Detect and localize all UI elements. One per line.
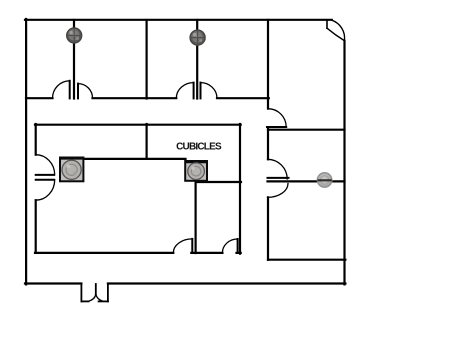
entrance recess left jamb: [80, 284, 82, 302]
cubicle bottom door 1 swing arc: [173, 239, 192, 253]
cubicle bottom door 2 swing arc: [222, 239, 237, 253]
cubicle partition wall right of sensor S2: [196, 181, 241, 183]
outer top wall: [25, 19, 332, 21]
wall C (top band divider with sensor): [196, 20, 198, 99]
sensor S_C (ceiling sensor, right wing wall): [317, 173, 332, 188]
outer bottom wall left segment: [25, 282, 81, 284]
door A-left swing arc: [53, 81, 70, 98]
outer right wall: [343, 41, 345, 285]
bottom-right room bottom wall: [268, 259, 345, 261]
left double door lower swing arc: [36, 180, 55, 201]
outer left wall: [25, 19, 27, 284]
sensor S2 (cubicle device box, right): [185, 161, 207, 181]
top band bottom wall segment 3: [217, 97, 269, 99]
outer bottom wall right segment: [108, 282, 346, 284]
wall D (top band right divider): [267, 20, 269, 109]
entrance door right swing: [96, 294, 103, 301]
sensor S1 (cubicle device box, left): [60, 158, 83, 182]
cubicle bottom door 2 leaf: [237, 239, 239, 253]
svg-text:CUBICLES: CUBICLES: [176, 141, 222, 152]
door C-left leaf: [193, 83, 195, 99]
wall B (top band divider): [146, 20, 148, 99]
cubicle area left wall lower segment: [35, 200, 37, 252]
cubicle partition wall vertical: [146, 124, 148, 159]
right double door lower swing arc: [268, 184, 289, 198]
cubicle bottom door 1 leaf: [191, 239, 193, 253]
top band bottom wall segment 1: [26, 97, 53, 99]
left double door upper swing arc: [36, 155, 55, 175]
door A-left leaf: [69, 81, 71, 99]
door D1 swing arc: [268, 109, 286, 127]
corner door jamb stub top-right: [326, 20, 328, 28]
wall divider top-right/mid-right rooms: [268, 129, 345, 131]
door C-right swing arc: [201, 83, 218, 99]
door A-right leaf: [77, 84, 79, 99]
wall D lower segment 2: [267, 197, 269, 259]
door A-right swing arc: [78, 84, 93, 99]
cubicle area bottom wall segment 3: [237, 252, 241, 254]
right double door upper leaf: [268, 177, 289, 179]
entrance recess floor right: [99, 300, 108, 302]
cubicle area top wall: [35, 124, 241, 126]
entrance door left swing: [89, 294, 96, 301]
left double door upper leaf: [36, 174, 54, 176]
entrance recess right jamb: [107, 284, 109, 302]
cubicle area bottom wall segment 1: [35, 252, 173, 254]
door C-right leaf: [200, 83, 202, 99]
cubicle area right wall: [239, 124, 241, 254]
cubicle partition wall between sensors: [83, 158, 186, 160]
entrance center mullion: [95, 284, 97, 294]
top band bottom wall segment 2: [93, 97, 177, 99]
wall D lower segment 1: [267, 129, 269, 160]
wall divider mid-right/bottom-right rooms (with lower leaf): [268, 180, 345, 182]
entrance recess floor left: [81, 300, 88, 302]
wall A (top band divider with sensor): [73, 20, 75, 99]
corner door swing arc: [332, 20, 345, 40]
sensor S_B (ceiling sensor, second top room wall): [190, 30, 205, 45]
cubicle area bottom wall segment 2: [191, 252, 222, 254]
door D1 leaf: [267, 126, 286, 128]
right double door upper swing arc: [268, 159, 288, 179]
sensor S_A (ceiling sensor, top-left room wall): [67, 28, 82, 43]
corner door leaf diagonal: [327, 28, 344, 40]
left double door lower leaf: [36, 179, 54, 181]
cubicle area left wall upper segment: [35, 124, 37, 155]
cubicle partition wall below sensor S2: [195, 181, 197, 253]
door C-left swing arc: [176, 83, 193, 99]
